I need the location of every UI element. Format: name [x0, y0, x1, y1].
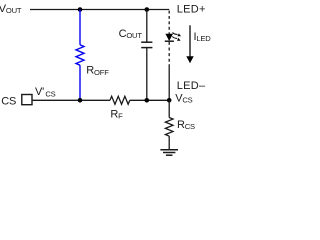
capacitor COUT lower lead	[146, 48, 148, 101]
LED D1 emission arrow upper	[172, 33, 181, 37]
junction node VCS	[167, 98, 172, 103]
wire ROFF lower lead (blue)	[79, 65, 81, 100]
capacitor COUT top plate	[141, 41, 152, 43]
wire CS pad to RF	[32, 99, 110, 101]
wire RF to VCS node	[130, 99, 169, 101]
svg-text:CS: CS	[1, 96, 16, 108]
junction top ROFF tap	[78, 7, 83, 12]
wire RCS to ground	[168, 136, 170, 150]
wire LED cathode (dashed)	[168, 42, 170, 66]
wire top rail	[30, 9, 169, 11]
resistor RCS body	[165, 118, 173, 137]
wire LED cathode to VCS node (solid)	[168, 66, 170, 101]
wire LED anode (dashed)	[168, 11, 170, 34]
wire VCS node to RCS	[168, 100, 170, 117]
resistor RF body	[110, 96, 130, 104]
wire ROFF upper lead (blue)	[79, 10, 81, 45]
LED D1 cathode bar	[165, 40, 174, 42]
LED D1 emission arrow lower	[172, 37, 180, 41]
LED D1 triangle	[166, 34, 173, 40]
svg-text:LED+: LED+	[177, 3, 206, 15]
capacitor COUT bottom plate	[141, 47, 152, 49]
capacitor COUT upper lead	[146, 10, 148, 43]
ground	[160, 150, 178, 155]
junction bottom COUT tap	[145, 98, 150, 103]
resistor ROFF body	[76, 45, 84, 65]
junction top COUT tap	[145, 7, 150, 12]
arrow ILED	[186, 25, 193, 63]
junction bottom ROFF tap	[78, 98, 83, 103]
svg-text:LED–: LED–	[177, 80, 206, 92]
terminal CS pad	[22, 95, 32, 105]
